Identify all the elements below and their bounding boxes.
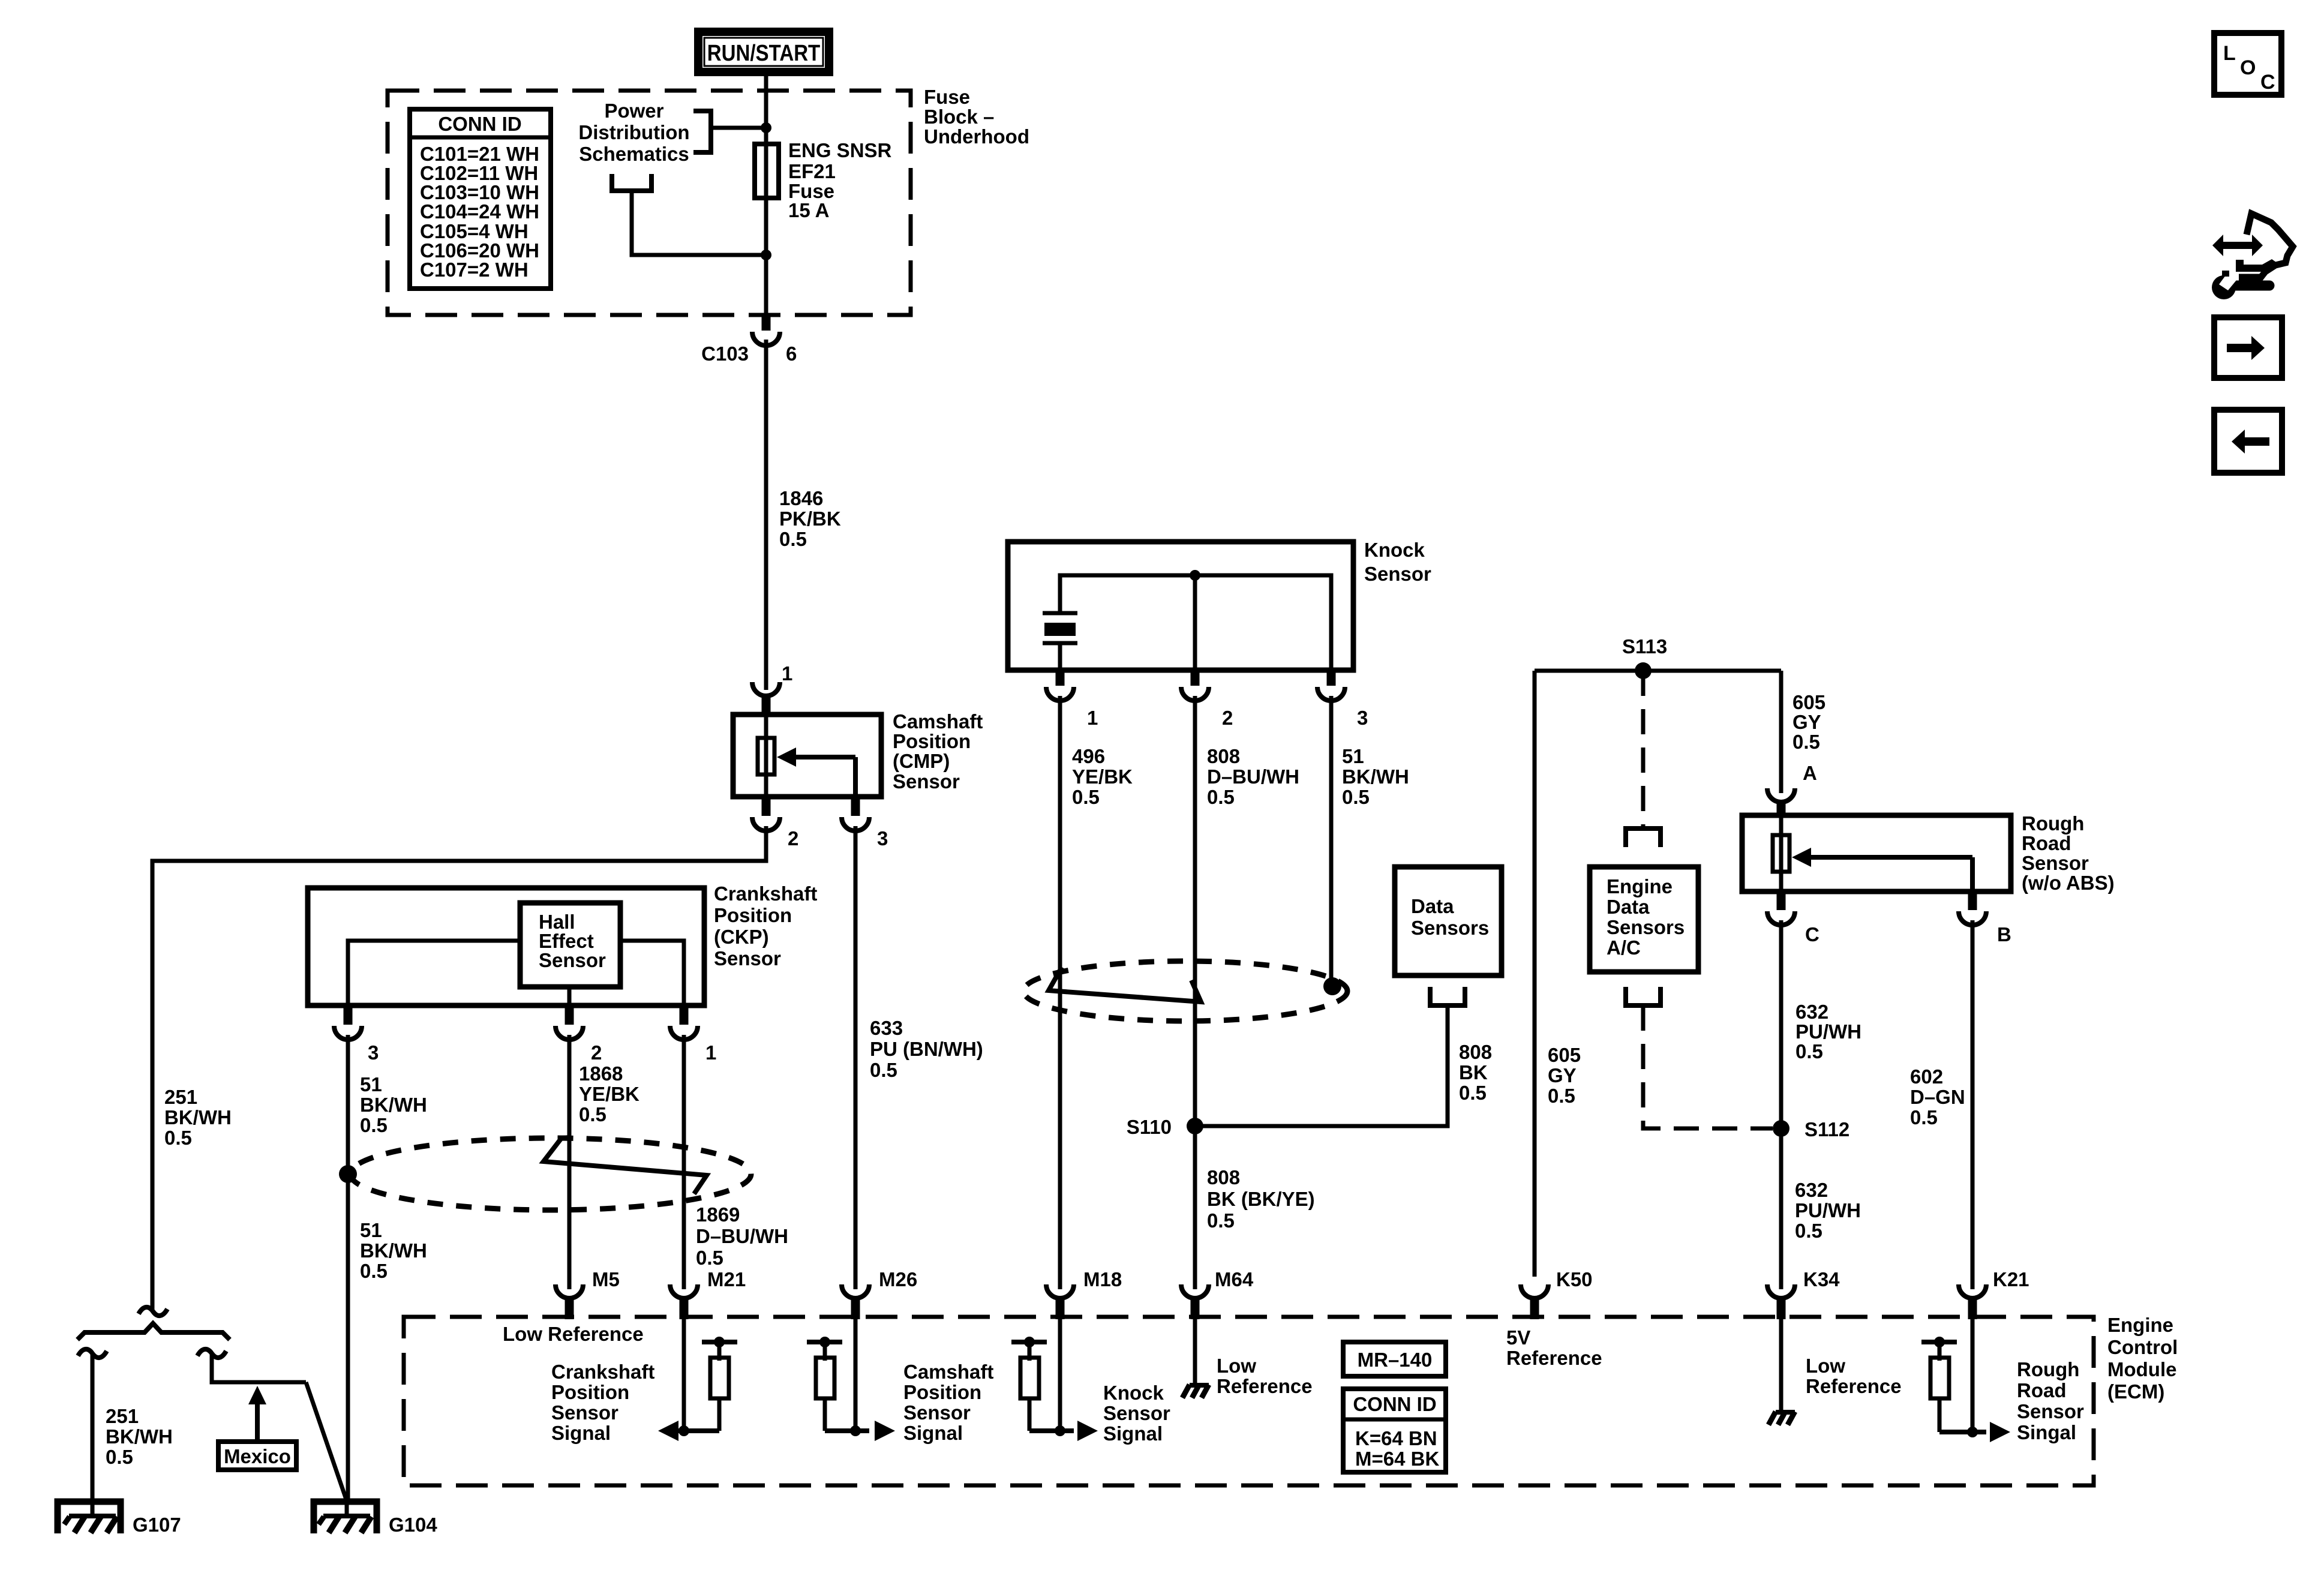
wire 1869 label [696, 1203, 788, 1269]
knock sensor label [1364, 539, 1431, 585]
connector CMP pin 3 cup [842, 817, 869, 831]
wire 808 BK label [1459, 1041, 1492, 1104]
splice S112 [1773, 1120, 1789, 1137]
svg-text:Sensors: Sensors [1411, 917, 1489, 939]
svg-text:Sensor: Sensor [1103, 1402, 1170, 1424]
K34 internal ground [1768, 1412, 1795, 1425]
engine data sensors lower bracket [1626, 987, 1661, 1005]
wire 605 GY to K50 [1533, 671, 1537, 1277]
data sensors continuation bracket [1430, 987, 1465, 1005]
wire 808 knock pin 2 to M64 [1193, 696, 1197, 1289]
connector CMP pin 1 cup [752, 682, 780, 696]
svg-text:632: 632 [1795, 1179, 1828, 1201]
camshaft position sensor box [733, 715, 881, 797]
svg-text:Sensor: Sensor [903, 1401, 971, 1424]
svg-text:633: 633 [870, 1017, 903, 1039]
svg-text:Sensor: Sensor [1364, 563, 1431, 585]
M64 low reference label [1217, 1355, 1313, 1397]
svg-text:51: 51 [1342, 745, 1364, 767]
svg-text:1: 1 [705, 1041, 716, 1064]
svg-text:2: 2 [591, 1041, 602, 1064]
MR-140 box [1343, 1342, 1446, 1376]
svg-text:D–BU/WH: D–BU/WH [1207, 766, 1299, 788]
M64 internal wire [1193, 1319, 1197, 1386]
svg-text:0.5: 0.5 [1207, 1209, 1235, 1232]
svg-text:PK/BK: PK/BK [779, 508, 841, 530]
svg-text:0.5: 0.5 [1342, 786, 1370, 808]
back arrow button [2214, 410, 2282, 473]
schematic continuation bracket [612, 174, 651, 191]
wire diagonal into G104 [306, 1382, 347, 1501]
wire branch to G107 [91, 1355, 95, 1500]
wire RUN/START to fuse [764, 72, 768, 146]
svg-text:C: C [1805, 923, 1819, 945]
svg-text:0.5: 0.5 [106, 1446, 133, 1468]
wire 496 label [1072, 745, 1133, 808]
connector K50 stub [1530, 1296, 1539, 1319]
svg-text:CONN ID: CONN ID [1353, 1393, 1436, 1415]
hall effect sensor label [539, 911, 606, 971]
CKP shield node [339, 1165, 357, 1183]
wire 251 label upper [164, 1086, 232, 1149]
svg-text:Mexico: Mexico [224, 1445, 291, 1467]
data sensors box [1395, 867, 1502, 975]
wire branch to G104 [212, 1355, 306, 1382]
connector knock pin 2 stub [1191, 670, 1200, 686]
ground G104 [314, 1499, 377, 1533]
svg-text:G104: G104 [389, 1514, 437, 1536]
engine data sensors box [1590, 867, 1698, 972]
CMP potentiometer element [758, 738, 774, 775]
CMP signal label [903, 1361, 993, 1444]
svg-text:S112: S112 [1804, 1118, 1849, 1140]
svg-text:Knock: Knock [1364, 539, 1425, 561]
wire 605 GY right label [1792, 691, 1825, 753]
wire 633 label [870, 1017, 983, 1081]
connector C103 pin stub [762, 314, 771, 331]
forward arrow button [2214, 317, 2282, 378]
wire bracket to fuse [711, 126, 766, 130]
rough road sensor label [2022, 812, 2115, 894]
Mexico arrow [248, 1386, 266, 1442]
connector knock pin 3 cup [1317, 687, 1345, 701]
svg-text:Sensor: Sensor [551, 1401, 618, 1424]
Mexico callout box [218, 1442, 296, 1470]
svg-text:1869: 1869 [696, 1203, 740, 1226]
CMP internal wire [764, 715, 768, 797]
wire 1868 label [579, 1062, 639, 1125]
svg-text:5V: 5V [1506, 1326, 1530, 1349]
svg-text:C107=2 WH: C107=2 WH [420, 259, 529, 281]
wire 51 knock label [1342, 745, 1409, 808]
svg-text:BK (BK/YE): BK (BK/YE) [1207, 1188, 1315, 1210]
connector RRS pin A cup [1767, 788, 1795, 802]
wire 1846 label [779, 487, 841, 550]
rough road signal label [2017, 1358, 2084, 1443]
svg-text:3: 3 [1357, 707, 1368, 729]
K34 internal wire [1779, 1319, 1783, 1413]
svg-text:Reference: Reference [1806, 1375, 1902, 1397]
svg-text:(CKP): (CKP) [714, 926, 769, 948]
knock piezo element [1043, 613, 1077, 670]
svg-text:Reference: Reference [1217, 1375, 1313, 1397]
svg-text:0.5: 0.5 [870, 1059, 897, 1081]
node junction above fuse [761, 122, 771, 133]
svg-text:Road: Road [2017, 1379, 2067, 1401]
knock internal node [1190, 570, 1200, 581]
wire S113 bus [1535, 669, 1781, 673]
connector M5 cup [556, 1284, 583, 1298]
svg-text:BK: BK [1459, 1061, 1488, 1083]
svg-text:MR–140: MR–140 [1358, 1349, 1433, 1371]
svg-text:Signal: Signal [903, 1422, 963, 1444]
svg-text:Low Reference: Low Reference [503, 1323, 644, 1345]
svg-text:51: 51 [360, 1219, 382, 1241]
crankshaft position sensor box [308, 888, 704, 1005]
svg-text:Sensor: Sensor [539, 949, 606, 971]
svg-text:ENG SNSR: ENG SNSR [788, 139, 892, 161]
RRS wiper arrow [1792, 848, 1972, 891]
connector CKP pin 1 cup [670, 1026, 698, 1040]
svg-text:A: A [1803, 762, 1817, 784]
connector CMP pin 1 stub [762, 695, 771, 716]
connector RRS pin C cup [1767, 911, 1795, 925]
svg-text:Camshaft: Camshaft [903, 1361, 993, 1383]
svg-text:PU (BN/WH): PU (BN/WH) [870, 1038, 983, 1060]
rough road signal resistor assembly [1921, 1337, 2010, 1442]
svg-text:0.5: 0.5 [579, 1103, 606, 1125]
connector knock pin 1 cup [1046, 687, 1074, 701]
knock internal pin2 wire [1193, 575, 1197, 670]
svg-text:1846: 1846 [779, 487, 823, 509]
svg-text:M5: M5 [592, 1268, 620, 1290]
knock sensor box [1008, 542, 1353, 670]
CMP sensor label [893, 710, 983, 792]
wire bracket down [632, 191, 766, 255]
svg-text:Signal: Signal [1103, 1422, 1163, 1445]
svg-text:0.5: 0.5 [1792, 731, 1820, 753]
svg-text:D–BU/WH: D–BU/WH [696, 1225, 788, 1247]
dashed wire engine data sensors to S112 [1643, 1005, 1773, 1128]
svg-text:0.5: 0.5 [779, 528, 807, 550]
svg-text:GY: GY [1792, 711, 1821, 733]
svg-text:Sensor: Sensor [893, 770, 960, 792]
svg-text:808: 808 [1207, 745, 1240, 767]
svg-text:808: 808 [1207, 1166, 1240, 1188]
svg-text:0.5: 0.5 [1072, 786, 1100, 808]
svg-text:M=64 BK: M=64 BK [1355, 1448, 1439, 1470]
K21 internal wire [1971, 1319, 1975, 1432]
svg-text:605: 605 [1792, 691, 1825, 713]
svg-text:Fuse: Fuse [924, 86, 970, 108]
knock shield zigzag [1049, 967, 1201, 1002]
svg-text:0.5: 0.5 [360, 1260, 388, 1282]
svg-text:Knock: Knock [1103, 1382, 1164, 1404]
wire 51 knock pin 3 to shield [1329, 696, 1334, 984]
connector K21 stub [1968, 1296, 1977, 1319]
svg-text:Crankshaft: Crankshaft [551, 1361, 654, 1383]
knock signal resistor assembly [1011, 1337, 1098, 1441]
svg-text:B: B [1997, 923, 2011, 945]
svg-text:A/C: A/C [1607, 936, 1641, 959]
connector knock pin 3 stub [1327, 670, 1336, 686]
ECM dashed box [404, 1317, 2094, 1485]
svg-text:Sensor: Sensor [2017, 1400, 2084, 1422]
svg-text:BK/WH: BK/WH [360, 1094, 427, 1116]
svg-text:496: 496 [1072, 745, 1105, 767]
svg-text:Camshaft: Camshaft [893, 710, 983, 733]
svg-text:C103: C103 [701, 343, 749, 365]
vehicle data icon double arrow [2212, 235, 2263, 256]
connector CMP pin 3 stub [851, 797, 860, 816]
fuse EF21 label [788, 139, 892, 221]
wire 1868 CKP pin 2 to M5 [568, 1035, 572, 1289]
connector M26 cup [842, 1284, 869, 1298]
connector CKP pin 3 cup [334, 1026, 362, 1040]
vehicle data icon wrench [2212, 271, 2269, 299]
svg-text:632: 632 [1795, 1001, 1828, 1023]
wire 605 GY left label [1548, 1044, 1581, 1107]
svg-text:Sensor: Sensor [714, 947, 781, 969]
wire 632 label upper [1795, 1001, 1861, 1062]
wire 51 label lower [360, 1219, 427, 1282]
5V reference label [1506, 1326, 1602, 1369]
svg-text:Road: Road [2022, 832, 2071, 854]
connector K21 cup [1959, 1284, 1986, 1298]
svg-text:EF21: EF21 [788, 160, 836, 182]
svg-text:(CMP): (CMP) [893, 750, 950, 772]
knock internal bus wire [1060, 575, 1331, 670]
connector CKP pin 3 stub [344, 1005, 353, 1025]
svg-text:Low: Low [1806, 1355, 1845, 1377]
wire 51 label upper [360, 1073, 427, 1136]
connector CKP pin 2 cup [556, 1026, 583, 1040]
svg-text:CONN ID: CONN ID [438, 113, 521, 135]
svg-text:Position: Position [893, 730, 971, 752]
svg-text:Reference: Reference [1506, 1347, 1602, 1369]
svg-text:M21: M21 [707, 1268, 746, 1290]
svg-text:(ECM): (ECM) [2107, 1380, 2164, 1403]
svg-text:Position: Position [903, 1381, 981, 1403]
connector CMP pin 2 cup [752, 817, 780, 831]
knock shield ellipse [1023, 961, 1347, 1021]
svg-text:Engine: Engine [1607, 875, 1673, 897]
connector C103 cup [752, 332, 780, 346]
svg-text:51: 51 [360, 1073, 382, 1095]
svg-text:GY: GY [1548, 1064, 1577, 1086]
wire 51 CKP pin 3 to G104 [346, 1035, 350, 1501]
svg-text:K50: K50 [1556, 1268, 1593, 1290]
wire break symbol left branch [78, 1349, 107, 1358]
svg-text:602: 602 [1910, 1065, 1943, 1088]
svg-text:605: 605 [1548, 1044, 1581, 1066]
connector RRS pin B cup [1959, 911, 1986, 925]
wire 808 label [1207, 745, 1299, 808]
svg-text:M26: M26 [879, 1268, 917, 1290]
svg-text:1868: 1868 [579, 1062, 623, 1085]
svg-text:15 A: 15 A [788, 199, 829, 221]
wire 633 CMP pin 3 to M26 [854, 826, 858, 1289]
svg-text:L: L [2223, 42, 2236, 65]
ground G107 [58, 1500, 121, 1533]
CKP sensor label [714, 882, 817, 969]
svg-text:0.5: 0.5 [164, 1127, 192, 1149]
wire break symbol main [139, 1307, 167, 1316]
power distribution reference bracket [693, 111, 711, 152]
connector M5 stub [565, 1296, 574, 1319]
svg-text:1: 1 [1087, 707, 1098, 729]
svg-text:BK/WH: BK/WH [164, 1106, 232, 1128]
svg-text:0.5: 0.5 [1795, 1040, 1823, 1062]
svg-text:Position: Position [714, 904, 792, 926]
M18 internal wire [1058, 1319, 1062, 1431]
svg-text:G107: G107 [133, 1514, 181, 1536]
wire break symbol right branch [197, 1349, 226, 1358]
fuse block underhood dashed box [388, 91, 911, 315]
svg-text:Rough: Rough [2017, 1358, 2079, 1380]
wire 602 pin B to K21 [1971, 920, 1975, 1289]
svg-text:0.5: 0.5 [696, 1247, 723, 1269]
CKP signal label [551, 1361, 654, 1444]
knock shield node [1323, 977, 1341, 995]
fuse EF21 [755, 144, 779, 198]
connector knock pin 1 stub [1056, 670, 1065, 686]
svg-text:Singal: Singal [2017, 1421, 2076, 1443]
svg-text:808: 808 [1459, 1041, 1492, 1063]
connector M26 stub [851, 1296, 860, 1319]
svg-text:Low: Low [1217, 1355, 1256, 1377]
svg-text:Control: Control [2107, 1336, 2178, 1358]
svg-text:YE/BK: YE/BK [1072, 766, 1133, 788]
svg-text:0.5: 0.5 [1459, 1082, 1487, 1104]
connector CMP pin 2 stub [762, 797, 771, 816]
wire 1869 CKP pin 1 to M21 [682, 1035, 686, 1289]
svg-text:Sensor: Sensor [2022, 852, 2089, 874]
svg-text:Crankshaft: Crankshaft [714, 882, 817, 905]
M21 internal wire [682, 1319, 686, 1431]
hall effect sensor box [520, 903, 620, 987]
wire 632 pin C to K34 [1779, 920, 1783, 1289]
connector K34 stub [1777, 1296, 1786, 1319]
svg-text:C: C [2260, 71, 2275, 94]
wire 632 label lower [1795, 1179, 1861, 1242]
svg-text:2: 2 [788, 827, 798, 849]
CKP internal wires [348, 941, 684, 1005]
svg-text:0.5: 0.5 [1795, 1220, 1822, 1242]
svg-text:Module: Module [2107, 1358, 2176, 1380]
svg-text:C104=24 WH: C104=24 WH [420, 200, 539, 223]
svg-text:Underhood: Underhood [924, 125, 1029, 148]
svg-text:6: 6 [786, 343, 797, 365]
knock signal label [1103, 1382, 1170, 1445]
svg-text:D–GN: D–GN [1910, 1086, 1965, 1108]
wire fuse to box bottom [764, 197, 768, 317]
svg-text:BK/WH: BK/WH [1342, 766, 1409, 788]
wire 1846 PK/BK [764, 340, 768, 690]
brace splice symbol [77, 1323, 230, 1340]
dashed wire S113 to engine data sensors [1641, 671, 1646, 827]
splice S113 [1635, 662, 1652, 679]
connector CKP pin 1 stub [680, 1005, 689, 1025]
svg-text:K=64 BN: K=64 BN [1355, 1427, 1437, 1449]
svg-text:BK/WH: BK/WH [360, 1239, 427, 1262]
RUN/START box [698, 32, 829, 72]
splice S110 [1187, 1118, 1203, 1134]
wire CMP pin 2 to ground run [152, 826, 766, 1310]
svg-text:K34: K34 [1803, 1268, 1840, 1290]
svg-text:1: 1 [782, 662, 792, 685]
connector M18 stub [1056, 1296, 1065, 1319]
svg-text:0.5: 0.5 [1548, 1085, 1575, 1107]
connector M21 stub [680, 1296, 689, 1319]
svg-text:Block –: Block – [924, 106, 994, 128]
svg-text:(w/o ABS): (w/o ABS) [2022, 872, 2115, 894]
wire inside fuse [764, 146, 768, 197]
connector M64 stub [1191, 1296, 1200, 1319]
svg-text:Engine: Engine [2107, 1314, 2173, 1336]
svg-text:K21: K21 [1993, 1268, 2029, 1290]
RRS internal wire [1779, 815, 1783, 891]
vehicle data icon car outline [2239, 214, 2293, 277]
svg-text:251: 251 [164, 1086, 197, 1108]
svg-text:M64: M64 [1215, 1268, 1254, 1290]
vehicle data icon bar [2236, 259, 2278, 272]
svg-text:Sensors: Sensors [1607, 916, 1685, 938]
svg-text:PU/WH: PU/WH [1795, 1020, 1861, 1043]
connector M18 cup [1046, 1284, 1074, 1298]
connector K50 cup [1521, 1284, 1548, 1298]
svg-text:M18: M18 [1083, 1268, 1122, 1290]
svg-text:Signal: Signal [551, 1422, 611, 1444]
svg-text:0.5: 0.5 [1910, 1106, 1938, 1128]
svg-text:S113: S113 [1622, 635, 1667, 658]
svg-text:Distribution: Distribution [578, 121, 689, 143]
connector knock pin 2 cup [1181, 687, 1209, 701]
svg-text:PU/WH: PU/WH [1795, 1199, 1861, 1221]
svg-text:Data: Data [1411, 895, 1454, 917]
wire 496 knock pin 1 to M18 [1058, 696, 1062, 1289]
connector RRS pin B stub [1968, 891, 1977, 910]
CONN ID legend box [1343, 1389, 1446, 1472]
svg-text:Power: Power [604, 100, 663, 122]
svg-text:YE/BK: YE/BK [579, 1083, 639, 1105]
node junction below fuse [761, 250, 771, 260]
svg-text:BK/WH: BK/WH [106, 1425, 173, 1448]
svg-text:Schematics: Schematics [579, 143, 689, 165]
svg-text:Rough: Rough [2022, 812, 2084, 834]
CMP signal resistor assembly [807, 1337, 895, 1441]
svg-text:Data: Data [1607, 896, 1650, 918]
svg-text:3: 3 [368, 1041, 379, 1064]
connector M64 cup [1181, 1284, 1209, 1298]
svg-text:RUN/START: RUN/START [707, 40, 821, 66]
M26 internal wire [854, 1319, 858, 1431]
svg-text:Position: Position [551, 1381, 629, 1403]
wire 808 BK/YE label [1207, 1166, 1315, 1232]
wire S110 to data sensors [1195, 1005, 1448, 1126]
LOC legend box [2214, 33, 2281, 95]
rough road sensor box [1742, 815, 2011, 891]
svg-text:3: 3 [877, 827, 888, 849]
RRS potentiometer element [1773, 835, 1789, 872]
CMP wiper arrow [777, 748, 855, 797]
fuse block label [924, 86, 1029, 148]
svg-text:O: O [2240, 56, 2256, 79]
connector M21 cup [670, 1284, 698, 1298]
power distribution label [578, 100, 689, 165]
svg-text:S110: S110 [1127, 1116, 1172, 1138]
engine data sensors continuation bracket [1626, 828, 1661, 847]
